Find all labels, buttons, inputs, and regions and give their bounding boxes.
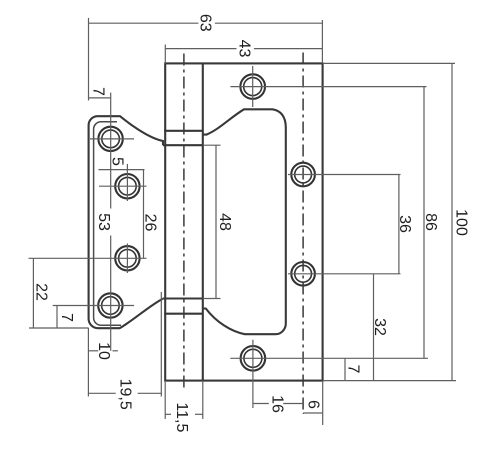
dim 26 line [143,170,145,259]
dim 22 line [32,258,34,328]
hole r2 horiz / ext 32-36 [288,273,401,275]
fold line [202,63,204,380]
hole r1 horiz / ext 36 [288,174,401,176]
ext 63/43 right [321,20,323,63]
centerline through right-leaf holes [302,53,304,415]
svg-text:19,5: 19,5 [117,379,134,410]
svg-text:48: 48 [216,213,233,231]
svg-text:36: 36 [396,215,413,233]
screw hole A4 (left leaf, bottom) [98,293,122,317]
hole1 vert / dim 53 line [110,93,112,209]
cutout [203,109,286,334]
dim 11,5 line [165,413,171,415]
top hole horiz / ext 86 [230,86,426,88]
bottom hole vert ext [252,340,254,408]
knuckle band top [164,130,203,132]
dim 36 line [398,175,400,274]
top hole vert [252,66,254,107]
right edge ext down [322,381,324,425]
svg-text:43: 43 [236,40,253,58]
dim 7 top-left [89,97,111,99]
outer leaf rectangle [165,63,322,380]
svg-text:100: 100 [453,209,470,236]
screw hole B2 (right leaf, upper right) [291,163,315,187]
hole1 horiz [90,138,134,140]
svg-text:6: 6 [305,400,322,409]
inner contour of left leaf [94,122,121,325]
dim 86 line [423,87,425,359]
svg-text:32: 32 [371,318,388,336]
screw hole B1 (right leaf, top) [240,74,265,99]
svg-text:11,5: 11,5 [173,402,190,432]
centerline of hinge knuckle [183,54,185,392]
svg-text:7: 7 [344,364,361,373]
dim 19,5 line [88,392,115,394]
screw hole A1 (left leaf, top) [98,127,122,151]
hole4 horiz / ext 7 bl [53,305,134,307]
svg-text:53: 53 [95,213,112,231]
dim 16 / 6 line [253,403,269,405]
hole3 horiz / ext 22+26 [29,257,147,259]
dim 100 line [451,63,453,380]
svg-text:26: 26 [141,214,158,232]
dim 43 line [165,48,236,50]
svg-text:10: 10 [95,342,112,360]
hole3 vert [126,244,128,274]
leaf left edge ext down [87,328,89,397]
bottom-left ext (leaf bottom extended) [29,327,89,329]
svg-text:63: 63 [197,14,214,32]
ext 19,5 right [160,292,162,397]
screw hole A2 (left leaf, upper middle) [115,174,139,198]
dim 7 bottom-right line [344,358,346,380]
svg-text:5: 5 [109,157,126,166]
svg-text:22: 22 [33,283,50,301]
bottom edge ext to 100 [323,380,456,382]
svg-text:16: 16 [269,395,286,413]
svg-text:7: 7 [90,87,107,96]
ext 11,5 [164,381,166,419]
hole2 vert [126,164,128,201]
hole2 horiz [99,185,147,187]
ext 48 [203,144,221,146]
dim 48 line [215,145,217,298]
dim 32 line [373,274,375,381]
ext 63 left / 7 left [88,18,90,101]
knuckle band bottom [163,297,203,299]
screw hole A3 (left leaf, lower middle) [115,246,139,270]
left leaf outline left+bottom [89,125,163,328]
bottom hole horiz / ext [230,357,428,359]
screw hole B4 (right leaf, bottom) [241,346,266,371]
dim 10 line [88,350,98,352]
top edge ext to 100 [323,62,455,64]
dim 7 bottom-left line [56,306,58,329]
dim 5 line [99,169,145,171]
svg-text:86: 86 [422,213,439,231]
dim 63 line [89,22,199,24]
left leaf outline top [89,116,163,145]
ext 43 left [164,45,166,64]
screw hole B3 (right leaf, lower right) [291,262,315,286]
svg-text:7: 7 [58,313,75,322]
